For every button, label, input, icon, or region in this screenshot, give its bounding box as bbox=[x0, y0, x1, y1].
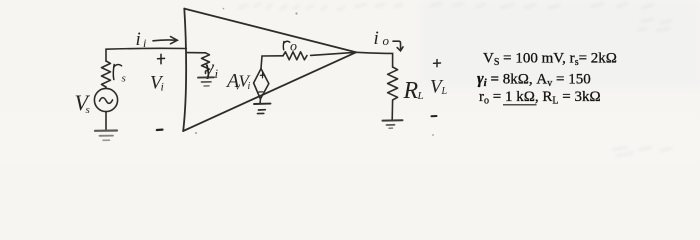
label i_i input current bbox=[136, 29, 147, 50]
wire from input edge to ri bbox=[187, 52, 206, 54]
label io output current bbox=[374, 28, 390, 49]
svg-text:o: o bbox=[290, 40, 297, 55]
ground under ri bbox=[198, 77, 214, 86]
svg-text:i: i bbox=[248, 81, 251, 92]
svg-text:VS = 100 mV, rs= 2kΩ: VS = 100 mV, rs= 2kΩ bbox=[483, 51, 617, 69]
underline under "1 k ohm," bbox=[503, 104, 537, 106]
current arrow i_i bbox=[153, 37, 177, 44]
resistor ri zigzag bbox=[202, 53, 210, 74]
svg-text:ro = 1 kΩ, RL = 3kΩ: ro = 1 kΩ, RL = 3kΩ bbox=[479, 89, 601, 107]
resistor RL zigzag bbox=[388, 67, 398, 120]
svg-text:γi = 8kΩ, Av = 150: γi = 8kΩ, Av = 150 bbox=[477, 71, 591, 90]
label RL bbox=[403, 78, 424, 104]
svg-text:s: s bbox=[86, 104, 90, 116]
wire below diamond to ground bbox=[259, 99, 261, 103]
label + VL - load voltage bbox=[430, 60, 448, 117]
resistor rs zigzag bbox=[102, 61, 111, 88]
ground under Vs bbox=[95, 131, 117, 141]
wire output from apex bbox=[356, 52, 393, 67]
svg-text:i: i bbox=[161, 80, 164, 94]
wire: input top from source to amplifier bbox=[106, 48, 186, 61]
label AvVi dependent source value bbox=[225, 70, 252, 93]
ground under RL bbox=[383, 120, 403, 128]
svg-text:L: L bbox=[417, 90, 424, 102]
label + Vi - input voltage bbox=[150, 54, 165, 130]
svg-text:i: i bbox=[143, 36, 146, 50]
op-amp amplifier triangle bbox=[183, 9, 356, 131]
wire from diamond top to ro bbox=[261, 56, 283, 69]
svg-text:i: i bbox=[374, 28, 379, 49]
svg-text:s: s bbox=[122, 73, 126, 85]
svg-text:L: L bbox=[441, 86, 448, 97]
dependent source diamond AvVi bbox=[254, 69, 269, 99]
label Vs bbox=[75, 90, 91, 116]
svg-text:i: i bbox=[215, 66, 219, 81]
current arrow io (hook down) bbox=[393, 41, 403, 51]
svg-text:R: R bbox=[403, 78, 419, 104]
polarity marks inside diamond bbox=[259, 73, 265, 92]
wire ro to apex bbox=[311, 52, 356, 55]
svg-text:i: i bbox=[136, 29, 141, 50]
resistor ro zigzag bbox=[283, 52, 307, 60]
source Vs sine source circle bbox=[94, 88, 117, 129]
label rs bbox=[113, 64, 126, 84]
svg-text:o: o bbox=[383, 33, 390, 48]
label ri bbox=[205, 55, 219, 82]
label ro bbox=[283, 40, 297, 55]
ground under dependent source bbox=[254, 104, 271, 114]
svg-text:γ: γ bbox=[205, 55, 215, 80]
